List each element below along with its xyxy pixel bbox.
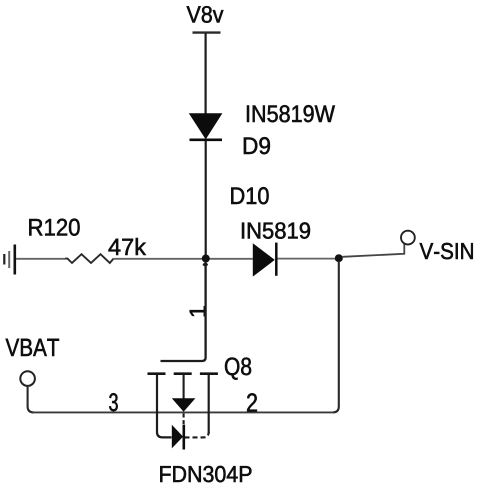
resistor R120 (65, 254, 114, 263)
label D9 (244, 137, 270, 154)
terminal V-SIN (401, 231, 415, 245)
label D10 (231, 187, 268, 204)
label 47k (109, 238, 147, 255)
pin 3 (109, 393, 118, 411)
label FDN304P (160, 466, 251, 482)
transistor Q8 (148, 374, 219, 450)
wire (278, 258, 337, 260)
label V8v (187, 6, 224, 23)
wire (205, 141, 207, 256)
wire (333, 261, 339, 412)
pin 1 (190, 306, 206, 316)
label V-SIN (420, 243, 473, 259)
wire (16, 258, 65, 260)
label R120 (29, 219, 79, 236)
power rail V8v (193, 31, 221, 33)
diode D9 (189, 113, 223, 140)
label IN5819W (247, 105, 335, 122)
diode D10 (253, 243, 276, 277)
wire (114, 258, 253, 260)
wire (32, 411, 334, 413)
label VBAT (6, 339, 59, 356)
node junction (335, 254, 343, 262)
label Q8 (225, 358, 251, 380)
wire (161, 261, 206, 361)
label IN5819 (242, 222, 310, 238)
node junction (202, 255, 210, 267)
terminal VBAT (20, 371, 35, 386)
wire (28, 387, 34, 413)
wire (205, 33, 207, 114)
wire (343, 244, 405, 257)
pin 2 (247, 393, 257, 411)
ground (4, 245, 15, 275)
